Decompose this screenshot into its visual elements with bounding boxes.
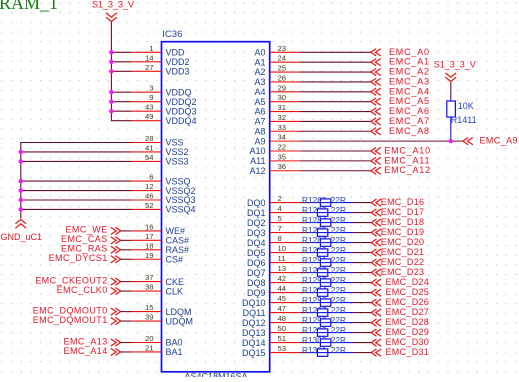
port EMC_A6 — [371, 106, 430, 116]
junction on GND rail at VSS2 row — [19, 150, 23, 154]
svg-text:VDD2: VDD2 — [166, 57, 190, 67]
pin 13 DQ7 — [247, 264, 300, 278]
svg-text:EMC_A4: EMC_A4 — [389, 86, 430, 96]
resistor R1282 22R — [302, 195, 346, 206]
svg-text:EMC_DYCS1: EMC_DYCS1 — [49, 253, 108, 263]
svg-text:A9: A9 — [254, 136, 265, 146]
pin 16 WE# — [132, 222, 186, 236]
junction on VDD rail at VDDQ3 row — [109, 109, 113, 113]
wire EMC_A14 to pin — [121, 351, 132, 353]
svg-text:53: 53 — [278, 344, 287, 353]
svg-text:EMC_A12: EMC_A12 — [384, 165, 431, 175]
svg-text:24: 24 — [278, 54, 287, 63]
wire: GND rail to pin VSSQ — [21, 180, 132, 182]
resistor R1301 22R — [302, 345, 346, 356]
resistor R1289 22R — [302, 245, 346, 256]
pin 14 VDD2 — [132, 53, 190, 67]
svg-text:EMC_A5: EMC_A5 — [389, 96, 430, 106]
svg-text:48: 48 — [278, 314, 287, 323]
wire net EMC_D23 segments — [300, 272, 372, 274]
port EMC_A7 — [371, 116, 430, 126]
wire: VSS/GND vertical rail — [21, 143, 132, 219]
wire net EMC_A4 — [300, 91, 371, 93]
port EMC_D22 — [371, 257, 424, 267]
pin 32 A7 — [254, 113, 299, 127]
pin 42 DQ8 — [247, 274, 300, 288]
pin 25 A2 — [254, 64, 299, 78]
svg-text:18: 18 — [145, 241, 154, 250]
port EMC_D24 — [371, 277, 429, 287]
pin 11 DQ6 — [247, 254, 300, 268]
svg-text:45: 45 — [278, 294, 287, 303]
port EMC_D17 — [371, 207, 424, 217]
svg-text:A3: A3 — [254, 77, 265, 87]
svg-text:VDDQ2: VDDQ2 — [166, 97, 197, 107]
wire: GND rail to pin VSSQ4 — [21, 208, 132, 210]
svg-text:A1: A1 — [254, 57, 265, 67]
svg-text:VSSQ4: VSSQ4 — [166, 205, 196, 215]
svg-text:A5: A5 — [254, 97, 265, 107]
pin 23 A0 — [254, 44, 299, 58]
svg-text:EMC_D17: EMC_D17 — [381, 207, 425, 217]
svg-text:VDDQ3: VDDQ3 — [166, 106, 197, 116]
port EMC_D21 — [371, 247, 424, 257]
svg-text:37: 37 — [145, 273, 154, 282]
port EMC_A4 — [371, 86, 430, 96]
svg-text:VDDQ: VDDQ — [166, 87, 192, 97]
wire net EMC_D18 segments — [300, 222, 372, 224]
wire EMC_DQMOUT0 to pin — [121, 311, 132, 313]
port EMC_D19 — [371, 227, 424, 237]
resistor R1287 22R — [302, 235, 346, 246]
wire EMC_DQMOUT1 to pin — [121, 320, 132, 322]
junction at R1411 / EMC_A9 — [449, 139, 453, 143]
resistor R1300 22R — [302, 335, 346, 346]
svg-text:22R: 22R — [331, 305, 346, 315]
svg-text:14: 14 — [145, 53, 154, 62]
port EMC_WE — [65, 225, 120, 235]
ground symbol GND_uC1 — [1, 220, 43, 243]
svg-text:EMC_A7: EMC_A7 — [389, 116, 430, 126]
junction on GND rail at VSSQ4 row — [19, 207, 23, 211]
pin 8 DQ4 — [247, 234, 300, 248]
svg-text:29: 29 — [278, 83, 287, 92]
pin 7 DQ3 — [247, 224, 300, 238]
svg-text:22R: 22R — [331, 335, 346, 345]
resistor R1294 22R — [302, 285, 346, 296]
svg-text:42: 42 — [278, 274, 287, 283]
svg-text:EMC_D31: EMC_D31 — [386, 347, 430, 357]
svg-text:22R: 22R — [331, 195, 346, 205]
svg-text:IC36: IC36 — [162, 29, 182, 40]
svg-text:22R: 22R — [331, 205, 346, 215]
pin 38 CLK — [132, 283, 184, 297]
port EMC_D28 — [371, 317, 429, 327]
port EMC_D23 — [371, 267, 424, 277]
wire net EMC_D22 segments — [300, 262, 372, 264]
junction on VDD rail at VDDQ2 row — [109, 100, 113, 104]
svg-text:50: 50 — [278, 324, 287, 333]
port EMC_D30 — [371, 337, 429, 347]
svg-text:19: 19 — [145, 251, 154, 260]
port EMC_DYCS1 — [49, 253, 121, 263]
wire: VDD rail to pin VDDQ3 — [111, 110, 131, 112]
junction on GND rail at VSS3 row — [19, 159, 23, 163]
svg-text:22R: 22R — [331, 245, 346, 255]
svg-text:EMC_D27: EMC_D27 — [386, 307, 430, 317]
port EMC_D29 — [371, 327, 429, 337]
svg-text:8: 8 — [278, 234, 282, 243]
pin 52 VSSQ4 — [132, 201, 196, 215]
wire net EMC_A0 — [300, 51, 371, 53]
resistor R1411 10K — [447, 98, 477, 141]
svg-text:54: 54 — [145, 153, 154, 162]
svg-text:EMC_A6: EMC_A6 — [389, 106, 430, 116]
svg-text:3: 3 — [149, 84, 153, 93]
svg-text:EMC_D20: EMC_D20 — [381, 237, 425, 247]
pin 36 A12 — [249, 162, 299, 176]
pin 31 A6 — [254, 103, 299, 117]
svg-text:22: 22 — [278, 143, 287, 152]
wire net EMC_A7 — [300, 120, 371, 122]
pin 24 A1 — [254, 54, 299, 68]
power symbol S1_3_3_V (right) — [434, 60, 476, 82]
port EMC_D27 — [371, 307, 429, 317]
resistor R1283 22R — [302, 205, 346, 216]
svg-text:26: 26 — [278, 73, 287, 82]
pin 17 CAS# — [132, 232, 190, 246]
pin 30 A5 — [254, 93, 299, 107]
wire net EMC_A1 — [300, 61, 371, 63]
wire: VDD rail to pin VDDQ2 — [111, 101, 131, 103]
svg-text:UDQM: UDQM — [166, 316, 194, 326]
svg-text:27: 27 — [145, 63, 154, 72]
svg-text:DQ10: DQ10 — [242, 298, 266, 308]
pin 34 A9 — [254, 133, 299, 147]
pin 37 CKE — [132, 273, 185, 287]
pin 5 DQ2 — [247, 214, 300, 228]
port EMC_A14 — [64, 346, 121, 356]
wire: GND rail to pin VSS2 — [21, 151, 132, 153]
wire net EMC_D21 segments — [300, 252, 372, 254]
svg-text:DQ2: DQ2 — [247, 218, 266, 228]
IC IC36 AS4C18M16SA (SDRAM) body — [162, 42, 270, 372]
svg-text:22R: 22R — [331, 295, 346, 305]
junction on VDD rail at VDDQ row — [109, 90, 113, 94]
wire: VDD rail to pin VDDQ — [111, 91, 131, 93]
svg-text:A12: A12 — [249, 166, 265, 176]
pin 50 DQ13 — [242, 324, 300, 338]
svg-text:10: 10 — [278, 244, 287, 253]
svg-text:EMC_D23: EMC_D23 — [381, 267, 425, 277]
svg-text:20: 20 — [145, 334, 154, 343]
svg-text:EMC_A9: EMC_A9 — [480, 136, 518, 146]
wire net EMC_A6 — [300, 111, 371, 113]
junction on VDD rail at VDD row — [109, 50, 113, 54]
port EMC_A3 — [371, 76, 430, 86]
port EMC_RAS — [61, 244, 121, 254]
junction on VDD rail at VDD3 row — [109, 69, 113, 73]
junction on GND rail at VSSQ2 row — [19, 188, 23, 192]
port EMC_A9 — [463, 136, 518, 146]
port EMC_A12 — [371, 165, 431, 175]
port EMC_A1 — [371, 57, 430, 67]
power symbol S1_3_3_V (top left) — [92, 0, 134, 22]
pin 18 RAS# — [132, 241, 190, 255]
svg-text:25: 25 — [278, 64, 287, 73]
svg-text:15: 15 — [145, 303, 154, 312]
pin 2 DQ0 — [247, 194, 300, 208]
wire net EMC_A8 — [300, 130, 371, 132]
pin 51 DQ14 — [242, 334, 300, 348]
svg-text:DQ6: DQ6 — [247, 258, 266, 268]
svg-text:DQ5: DQ5 — [247, 248, 266, 258]
wire net EMC_A5 — [300, 101, 371, 103]
svg-text:EMC_A14: EMC_A14 — [64, 346, 108, 356]
wire net EMC_D25 segments — [300, 292, 372, 294]
wire net EMC_A9 long to pullup — [300, 140, 463, 142]
svg-text:EMC_D25: EMC_D25 — [386, 287, 430, 297]
pin 26 A3 — [254, 73, 299, 87]
svg-text:AS4C18M16SA: AS4C18M16SA — [185, 372, 248, 378]
svg-text:16: 16 — [145, 222, 154, 231]
svg-text:A0: A0 — [254, 48, 265, 58]
pin 20 BA0 — [132, 334, 183, 348]
svg-text:32: 32 — [278, 113, 287, 122]
wire EMC_RAS to pin — [121, 249, 132, 251]
svg-text:DQ9: DQ9 — [247, 288, 266, 298]
svg-text:12: 12 — [145, 182, 154, 191]
wire net EMC_D24 segments — [300, 282, 372, 284]
pin 21 BA1 — [132, 343, 183, 357]
pin 49 VDDQ4 — [132, 112, 197, 126]
pin 27 VDD3 — [132, 63, 190, 77]
svg-text:EMC_D29: EMC_D29 — [386, 327, 430, 337]
svg-text:47: 47 — [278, 304, 287, 313]
svg-text:BA1: BA1 — [166, 347, 183, 357]
svg-text:17: 17 — [145, 232, 154, 241]
svg-text:22R: 22R — [331, 285, 346, 295]
svg-text:A6: A6 — [254, 107, 265, 117]
svg-text:41: 41 — [145, 143, 154, 152]
svg-text:A2: A2 — [254, 67, 265, 77]
pin 43 VDDQ3 — [132, 103, 197, 117]
resistor R1284 22R — [302, 215, 346, 226]
pin 44 DQ9 — [247, 284, 300, 298]
wire EMC_CLK0 to pin — [121, 290, 132, 292]
pin 10 DQ5 — [247, 244, 300, 258]
pin 6 VSSQ — [132, 173, 191, 187]
wire: VDD rail to pin VDD — [111, 51, 131, 53]
svg-text:S1_3_3_V: S1_3_3_V — [434, 60, 476, 70]
wire net EMC_A2 — [300, 71, 371, 73]
wire net EMC_D16 segments — [300, 202, 372, 204]
svg-text:EMC_D16: EMC_D16 — [381, 197, 425, 207]
port EMC_A10 — [371, 146, 431, 156]
svg-text:A10: A10 — [249, 146, 265, 156]
svg-text:CS#: CS# — [166, 254, 184, 264]
port EMC_D26 — [371, 297, 429, 307]
wire EMC_WE to pin — [121, 230, 132, 232]
svg-text:DQ15: DQ15 — [242, 348, 266, 358]
svg-text:EMC_A10: EMC_A10 — [384, 146, 431, 156]
pin 29 A4 — [254, 83, 299, 97]
svg-text:2: 2 — [278, 194, 282, 203]
svg-text:S1_3_3_V: S1_3_3_V — [92, 0, 134, 9]
wire net EMC_D26 segments — [300, 302, 372, 304]
port EMC_DQMOUT1 — [33, 315, 121, 325]
wire EMC_DYCS1 to pin — [121, 258, 132, 260]
svg-text:DQ3: DQ3 — [247, 228, 266, 238]
svg-text:21: 21 — [145, 343, 154, 352]
svg-text:46: 46 — [145, 192, 154, 201]
svg-text:43: 43 — [145, 103, 154, 112]
svg-text:28: 28 — [145, 134, 154, 143]
svg-text:RAM_1: RAM_1 — [0, 0, 58, 13]
pin 53 DQ15 — [242, 344, 300, 358]
resistor R1297 22R — [302, 305, 346, 316]
svg-text:22R: 22R — [331, 215, 346, 225]
svg-text:30: 30 — [278, 93, 287, 102]
svg-text:10K: 10K — [458, 101, 474, 111]
svg-text:EMC_CLK0: EMC_CLK0 — [57, 285, 108, 295]
resistor R1292 22R — [302, 265, 346, 276]
wire: VDD rail to pin VDD2 — [111, 61, 131, 63]
svg-text:VDDQ4: VDDQ4 — [166, 116, 197, 126]
port EMC_A5 — [371, 96, 430, 106]
wire net EMC_D30 segments — [300, 342, 372, 344]
resistor R1285 22R — [302, 225, 346, 236]
svg-text:35: 35 — [278, 152, 287, 161]
svg-text:EMC_DQMOUT1: EMC_DQMOUT1 — [33, 315, 108, 325]
junction on VDD rail at VDD2 row — [109, 60, 113, 64]
pin 22 A10 — [249, 143, 299, 157]
svg-text:6: 6 — [149, 173, 153, 182]
svg-text:22R: 22R — [331, 265, 346, 275]
port EMC_A0 — [371, 47, 430, 57]
svg-text:13: 13 — [278, 264, 287, 273]
junction on GND rail at VSSQ row — [19, 179, 23, 183]
svg-text:DQ1: DQ1 — [247, 208, 266, 218]
svg-text:A8: A8 — [254, 126, 265, 136]
svg-text:EMC_D30: EMC_D30 — [386, 337, 430, 347]
wire: GND rail to pin VSSQ2 — [21, 190, 132, 192]
svg-text:DQ14: DQ14 — [242, 338, 266, 348]
port EMC_A11 — [371, 155, 430, 165]
wire EMC_CAS to pin — [121, 239, 132, 241]
svg-text:EMC_A11: EMC_A11 — [384, 155, 430, 165]
pin 54 VSS3 — [132, 153, 189, 167]
port EMC_D25 — [371, 287, 429, 297]
pin 3 VDDQ — [132, 84, 192, 98]
svg-text:DQ13: DQ13 — [242, 328, 266, 338]
svg-text:44: 44 — [278, 284, 287, 293]
wire net EMC_D20 segments — [300, 242, 372, 244]
pin 41 VSS2 — [132, 143, 189, 157]
svg-text:11: 11 — [278, 254, 286, 263]
pin 45 DQ10 — [242, 294, 300, 308]
svg-text:DQ11: DQ11 — [243, 308, 266, 318]
wire net EMC_D28 segments — [300, 322, 372, 324]
pin 9 VDDQ2 — [132, 93, 197, 107]
resistor R1296 22R — [302, 295, 346, 306]
svg-text:EMC_D21: EMC_D21 — [381, 247, 425, 257]
svg-text:EMC_D26: EMC_D26 — [386, 297, 430, 307]
port EMC_A13 — [64, 336, 121, 346]
svg-text:51: 51 — [278, 334, 287, 343]
port EMC_D31 — [371, 347, 429, 357]
svg-text:DQ7: DQ7 — [247, 268, 266, 278]
svg-text:38: 38 — [145, 283, 154, 292]
pin 33 A8 — [254, 123, 299, 137]
svg-text:EMC_A0: EMC_A0 — [389, 47, 430, 57]
port EMC_CKEOUT2 — [35, 275, 120, 285]
svg-text:39: 39 — [145, 313, 154, 322]
svg-text:EMC_D19: EMC_D19 — [381, 227, 425, 237]
svg-text:22R: 22R — [331, 225, 346, 235]
svg-text:7: 7 — [278, 224, 282, 233]
svg-text:9: 9 — [149, 93, 153, 102]
wire: power to R1411 — [450, 82, 452, 98]
svg-text:49: 49 — [145, 112, 154, 121]
svg-text:23: 23 — [278, 44, 287, 53]
svg-text:1: 1 — [149, 44, 153, 53]
pin 15 LDQM — [132, 303, 192, 317]
pin 48 DQ12 — [242, 314, 300, 328]
svg-text:A7: A7 — [254, 117, 265, 127]
wire: VDD rail to pin VDD3 — [111, 70, 131, 72]
pin 39 UDQM — [132, 313, 194, 327]
pin 28 VSS — [132, 134, 184, 148]
port EMC_A2 — [371, 67, 430, 77]
port EMC_A8 — [371, 126, 430, 136]
wire EMC_A13 to pin — [121, 342, 132, 344]
wire net EMC_D29 segments — [300, 332, 372, 334]
svg-text:36: 36 — [278, 162, 287, 171]
svg-text:GND_uC1: GND_uC1 — [1, 232, 43, 242]
port EMC_DQMOUT0 — [33, 305, 121, 315]
pin 46 VSSQ3 — [132, 192, 196, 206]
svg-text:EMC_A3: EMC_A3 — [389, 76, 430, 86]
svg-text:34: 34 — [278, 133, 287, 142]
svg-text:DQ12: DQ12 — [242, 318, 266, 328]
wire net EMC_D27 segments — [300, 312, 372, 314]
svg-text:A11: A11 — [250, 156, 265, 166]
svg-text:22R: 22R — [331, 255, 346, 265]
svg-text:EMC_D18: EMC_D18 — [381, 217, 425, 227]
pin 47 DQ11 — [243, 304, 300, 318]
wire: VDD vertical rail from power symbol — [111, 22, 131, 121]
port EMC_CLK0 — [57, 285, 121, 295]
svg-text:DQ4: DQ4 — [247, 238, 266, 248]
wire: GND rail to pin VSSQ3 — [21, 199, 132, 201]
svg-text:R1411: R1411 — [451, 115, 477, 125]
svg-text:A4: A4 — [254, 87, 265, 97]
resistor R1299 22R — [302, 325, 346, 336]
pin 35 A11 — [250, 152, 300, 166]
wire EMC_CKEOUT2 to pin — [121, 281, 132, 283]
junction on GND rail at VSSQ3 row — [19, 198, 23, 202]
svg-text:EMC_D28: EMC_D28 — [386, 317, 430, 327]
svg-text:EMC_A8: EMC_A8 — [389, 126, 430, 136]
port EMC_D16 — [371, 197, 424, 207]
svg-text:EMC_A2: EMC_A2 — [389, 67, 430, 77]
wire net EMC_A10 — [300, 150, 371, 152]
pin 1 VDD — [132, 44, 186, 58]
svg-text:EMC_D22: EMC_D22 — [381, 257, 425, 267]
resistor R1293 22R — [302, 275, 346, 286]
svg-text:22R: 22R — [331, 315, 346, 325]
